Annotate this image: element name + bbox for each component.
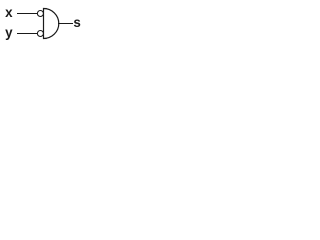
svg-text:y: y	[5, 25, 13, 40]
svg-text:x: x	[5, 5, 13, 20]
svg-text:s: s	[73, 15, 80, 30]
